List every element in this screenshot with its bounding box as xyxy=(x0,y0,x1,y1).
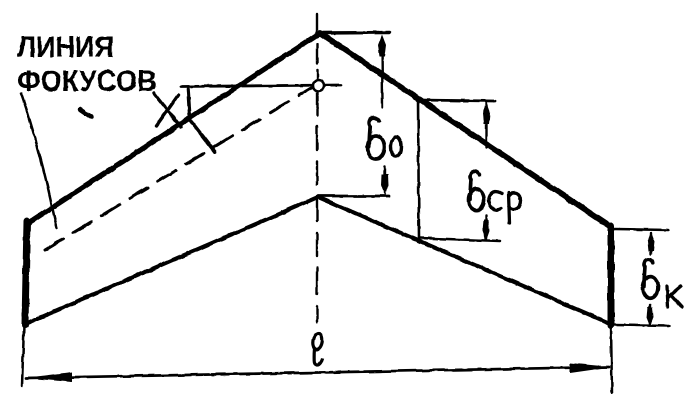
label X xyxy=(154,93,181,127)
span dimension line xyxy=(26,367,609,378)
svg-text:ЛИНИЯ: ЛИНИЯ xyxy=(17,31,114,64)
arrow b0 up xyxy=(378,35,386,58)
b0 dimension line upper xyxy=(381,40,384,107)
bk dimension line lower xyxy=(649,305,651,325)
focus point circle xyxy=(313,80,324,91)
arrow bcp up xyxy=(483,103,490,124)
bk bottom extension line xyxy=(615,325,669,326)
bcp dimension line lower xyxy=(485,216,487,239)
wing tip right xyxy=(608,226,615,325)
b0 bottom extension line xyxy=(318,195,389,198)
label bk xyxy=(643,259,658,298)
arrow span right xyxy=(570,363,612,373)
arrow bcp down xyxy=(483,220,490,241)
bk top extension line xyxy=(615,229,669,230)
arrow bk up xyxy=(648,232,655,251)
bcp top extension line xyxy=(417,100,495,101)
leading edge left xyxy=(27,35,317,224)
wing tip left xyxy=(25,221,27,325)
trailing edge right xyxy=(318,197,611,324)
bcp bottom extension line xyxy=(420,238,500,241)
extension below left tip xyxy=(22,325,24,386)
arrow span left xyxy=(25,372,72,382)
bcp dimension line upper xyxy=(485,103,487,148)
svg-text:ФОКУСОВ: ФОКУСОВ xyxy=(17,65,157,98)
label bcp xyxy=(469,171,485,210)
label span l xyxy=(313,333,323,365)
center line (axis of symmetry) xyxy=(316,14,319,322)
arrow bk down xyxy=(647,307,654,326)
extension below right tip xyxy=(611,325,612,393)
bk dimension line upper xyxy=(650,233,652,254)
line of focuses (dashed) xyxy=(45,88,311,250)
b0 dimension line lower xyxy=(384,166,386,193)
leader line from label xyxy=(21,93,57,228)
stray comma mark xyxy=(80,110,91,118)
b0 top extension line xyxy=(318,31,389,35)
trailing edge left xyxy=(25,197,318,324)
wire: horizontal line through focus point xyxy=(181,85,341,87)
label b0 xyxy=(368,118,384,159)
leading edge right xyxy=(320,33,611,227)
chord line at mid span xyxy=(418,99,419,240)
arrow b0 down xyxy=(382,174,389,195)
node X tick crossing leading edge xyxy=(188,89,215,152)
